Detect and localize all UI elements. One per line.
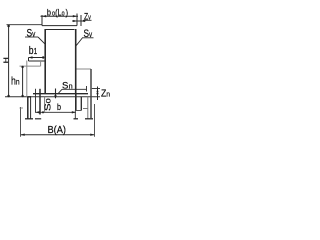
svg-text:B(A): B(A) [48, 125, 66, 137]
svg-text:Sv: Sv [84, 28, 93, 40]
svg-text:Zn: Zn [101, 88, 110, 100]
svg-text:H: H [2, 57, 10, 63]
svg-text:S0: S0 [44, 98, 53, 111]
svg-text:bo(Lo): bo(Lo) [47, 7, 69, 18]
svg-text:Sn: Sn [62, 80, 73, 91]
svg-text:hn: hn [11, 76, 20, 88]
svg-text:b: b [57, 101, 61, 112]
svg-text:b1: b1 [29, 45, 37, 57]
svg-text:Sv: Sv [27, 27, 36, 39]
